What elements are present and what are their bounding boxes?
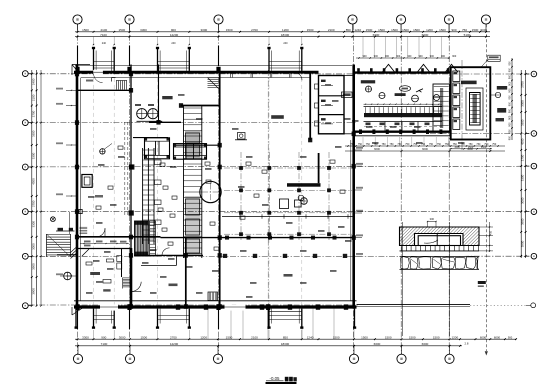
svg-text:1500: 1500 xyxy=(402,28,409,32)
room label upper-left xyxy=(162,96,172,99)
wall x186 lower xyxy=(185,238,187,308)
svg-text:1500: 1500 xyxy=(226,335,233,339)
horizontal axis line wing-bottom xyxy=(430,133,529,135)
detail axis verticals xyxy=(402,222,404,336)
room label lower-left xyxy=(103,289,110,291)
svg-text:1500: 1500 xyxy=(361,335,368,339)
svg-text:3300: 3300 xyxy=(31,130,35,137)
svg-text:18300: 18300 xyxy=(281,33,290,37)
right bubble stems xyxy=(526,73,530,75)
svg-text:6600: 6600 xyxy=(374,342,381,346)
annex bold label xyxy=(461,81,477,85)
exterior corner hatch left xyxy=(71,247,77,253)
room number label xyxy=(95,195,103,198)
bottom dimension ticks xyxy=(77,338,79,340)
top band stems xyxy=(93,37,95,45)
left exterior wall xyxy=(76,65,79,309)
svg-text:900: 900 xyxy=(101,335,106,339)
porch threshold xyxy=(269,311,302,313)
pump leader marks xyxy=(135,104,141,106)
svg-text:300: 300 xyxy=(430,217,435,221)
svg-text:900: 900 xyxy=(374,55,379,58)
top dimension ticks xyxy=(77,31,79,33)
svg-text:1500: 1500 xyxy=(439,28,446,32)
svg-text:3900: 3900 xyxy=(31,288,35,295)
svg-text:900: 900 xyxy=(509,115,512,120)
cell stack door stubs xyxy=(315,84,319,89)
interior wall x131 xyxy=(130,65,132,309)
annex outer walls xyxy=(451,67,491,139)
svg-text:900: 900 xyxy=(480,28,485,32)
svg-text:3300: 3300 xyxy=(140,28,147,32)
detail masonry course xyxy=(400,245,480,247)
exterior platform xyxy=(56,230,75,232)
gallery B rails xyxy=(183,106,185,258)
detail leader xyxy=(424,240,438,243)
porch wall xyxy=(57,254,77,256)
dashed duct pair xyxy=(124,122,126,215)
wing roof triangles xyxy=(382,64,395,72)
wing conveyor top rail xyxy=(364,106,443,108)
interior thick wall x310 xyxy=(309,72,311,140)
right dimension line 1 xyxy=(520,70,522,258)
svg-text:1240: 1240 xyxy=(354,28,361,32)
wall junction blobs xyxy=(129,235,133,240)
small cells boxes right of hall xyxy=(117,256,122,262)
interior wall y105 xyxy=(181,105,220,107)
right keynote extra xyxy=(496,118,505,121)
gallery B inner boxes xyxy=(186,133,200,143)
svg-text:2700: 2700 xyxy=(31,200,35,207)
B axis column marks xyxy=(223,254,227,258)
svg-text:3900: 3900 xyxy=(31,263,35,270)
wing level oval xyxy=(399,86,410,92)
annex keynote labels xyxy=(497,86,507,90)
top-left corner brace xyxy=(72,65,78,72)
horizontal axis line E xyxy=(29,122,356,124)
horizontal axis line D xyxy=(29,165,530,168)
svg-text:750: 750 xyxy=(462,28,467,32)
svg-text:900: 900 xyxy=(171,28,176,32)
svg-text:4500: 4500 xyxy=(31,178,35,185)
interior wall y122 xyxy=(149,121,181,123)
stair near wall y90 xyxy=(116,81,118,90)
svg-text:750: 750 xyxy=(453,143,458,146)
title bold name xyxy=(285,377,289,382)
svg-text:3900: 3900 xyxy=(521,218,525,225)
svg-text:240: 240 xyxy=(102,42,107,45)
bottom wall extension to right xyxy=(357,303,471,305)
vertical axis line 5 xyxy=(400,24,402,354)
wing bottom wall blobs xyxy=(359,129,362,134)
wing conveyor bottom rail xyxy=(364,121,443,123)
svg-text:900: 900 xyxy=(441,55,446,58)
partition x121 lower xyxy=(121,249,123,277)
room labels lower middle xyxy=(169,284,178,287)
svg-text:3000: 3000 xyxy=(201,28,208,32)
svg-text:3300: 3300 xyxy=(82,335,89,339)
bottom wall pier blobs xyxy=(176,304,180,309)
svg-text:900: 900 xyxy=(509,102,512,107)
wing conveyor dark bar xyxy=(364,113,442,117)
svg-text:900: 900 xyxy=(509,81,512,86)
top wall door gap xyxy=(93,70,103,75)
wing pump circle 2 xyxy=(379,93,385,99)
bottom axis bubbles xyxy=(73,354,82,363)
wing interior posts xyxy=(384,122,386,132)
svg-text:240: 240 xyxy=(171,42,176,45)
svg-text:750: 750 xyxy=(390,143,395,146)
door arc top wall xyxy=(294,72,302,80)
svg-text:900: 900 xyxy=(452,55,457,58)
bottom pilaster columns xyxy=(93,309,95,327)
svg-text:1500: 1500 xyxy=(226,28,233,32)
svg-text:900: 900 xyxy=(430,55,435,58)
wall y237 column marks xyxy=(225,236,229,240)
svg-text:750: 750 xyxy=(476,143,481,146)
vertical axis line 4 xyxy=(352,24,354,354)
small equipment near axis3 xyxy=(238,133,246,140)
exterior stair treads xyxy=(47,234,71,236)
cell stack ties to right wall xyxy=(344,75,354,77)
duct junction box 1 xyxy=(129,164,134,169)
interior wall y145 xyxy=(176,144,220,146)
wall label box right xyxy=(342,92,353,98)
svg-text:1500: 1500 xyxy=(366,28,373,32)
left dimension line 1 xyxy=(31,70,33,305)
gallery A side boxes xyxy=(155,160,162,165)
interior wall x158 xyxy=(158,65,160,123)
svg-text:3300: 3300 xyxy=(31,152,35,159)
L-shaped foundation wall xyxy=(287,183,321,187)
svg-text:7100: 7100 xyxy=(100,33,107,37)
svg-text:1500: 1500 xyxy=(409,335,416,339)
tank box xyxy=(82,175,92,188)
bottom bubble stems xyxy=(77,346,79,354)
gallery A rails xyxy=(142,148,144,244)
bottom wall door gaps xyxy=(100,304,118,310)
detail inner step xyxy=(418,236,460,246)
corridor wall y248 xyxy=(77,248,131,250)
gallery B dark segments xyxy=(185,131,201,158)
svg-text:3300: 3300 xyxy=(31,221,35,228)
vertical axis line 6 xyxy=(448,24,450,354)
lower stair flight xyxy=(123,277,131,279)
annotation smudges xyxy=(84,241,91,243)
svg-text:850: 850 xyxy=(346,28,351,32)
wing pump circle 4 xyxy=(434,95,440,101)
annex bottom dim row xyxy=(450,148,492,150)
svg-text:900: 900 xyxy=(509,88,512,93)
svg-text:900: 900 xyxy=(509,95,512,100)
detail right dims xyxy=(489,222,491,252)
bottom dimension line 1 xyxy=(75,338,462,340)
svg-text:2.8: 2.8 xyxy=(465,341,469,345)
right axis bubbles xyxy=(531,71,537,77)
svg-text:3900: 3900 xyxy=(521,240,525,247)
top pilaster columns xyxy=(93,48,95,71)
top exterior wall xyxy=(74,71,319,74)
bottom axis column stubs xyxy=(75,304,79,310)
vertical axis line 1 xyxy=(77,24,79,354)
top dimension line 2 xyxy=(75,36,490,38)
detail rubble stones xyxy=(400,255,480,257)
svg-text:900: 900 xyxy=(396,55,401,58)
corridor dim ticks xyxy=(80,243,129,245)
svg-text:12200: 12200 xyxy=(170,33,179,37)
interior wall y90 xyxy=(77,89,131,91)
wing bold label xyxy=(395,93,406,96)
circled-x utility symbol xyxy=(51,217,56,222)
interior wall y237 xyxy=(79,236,161,238)
annex top leader labels xyxy=(481,60,488,68)
svg-text:750: 750 xyxy=(437,143,442,146)
top wall inner face xyxy=(81,77,310,79)
gallery B rungs xyxy=(184,107,202,109)
svg-text:750: 750 xyxy=(350,143,355,146)
wing top wall column blobs xyxy=(357,68,360,73)
svg-text:2700: 2700 xyxy=(521,81,525,88)
svg-text:3000: 3000 xyxy=(119,335,126,339)
svg-text:1500: 1500 xyxy=(378,28,385,32)
wing lower dimension row xyxy=(345,145,505,147)
bottom left corner column xyxy=(75,309,77,327)
svg-text:1240: 1240 xyxy=(307,335,314,339)
top eave line xyxy=(75,65,352,67)
right wall exterior dim stubs xyxy=(354,149,362,151)
svg-text:6600: 6600 xyxy=(374,147,380,151)
detail label below xyxy=(478,281,486,284)
wing conveyor small dim ticks xyxy=(364,103,443,105)
interior wall y265 xyxy=(141,264,177,266)
svg-text:900: 900 xyxy=(419,55,424,58)
wing conveyor vertical ticks xyxy=(365,107,367,113)
svg-text:750: 750 xyxy=(492,143,497,146)
top wall window ticks xyxy=(230,74,232,78)
svg-text:750: 750 xyxy=(445,143,450,146)
left dimension line 2 xyxy=(36,70,38,305)
svg-text:900: 900 xyxy=(509,122,512,127)
top axis column stubs xyxy=(77,46,79,67)
svg-text:-0.05: -0.05 xyxy=(269,376,280,381)
end leader circle xyxy=(531,303,536,308)
horizontal axis line B xyxy=(29,255,530,257)
wall junction open box C xyxy=(79,210,82,214)
svg-text:750: 750 xyxy=(484,143,489,146)
top dimension line 1 xyxy=(75,31,490,33)
svg-text:2700: 2700 xyxy=(251,28,258,32)
corridor door leaf xyxy=(82,249,89,256)
interior axis line x268 xyxy=(267,70,269,307)
svg-text:1200: 1200 xyxy=(426,28,433,32)
svg-text:5100: 5100 xyxy=(464,33,471,37)
svg-text:1500: 1500 xyxy=(307,28,314,32)
svg-text:2700: 2700 xyxy=(31,110,35,117)
central area small rects xyxy=(160,163,165,166)
right dense dimension column xyxy=(511,58,513,140)
svg-text:1200: 1200 xyxy=(200,335,207,339)
svg-text:1200: 1200 xyxy=(282,28,289,32)
svg-text:900: 900 xyxy=(451,28,456,32)
svg-text:1500: 1500 xyxy=(140,335,147,339)
svg-text:6000: 6000 xyxy=(480,335,487,339)
svg-text:750: 750 xyxy=(405,143,410,146)
svg-text:6600: 6600 xyxy=(422,33,429,37)
svg-text:750: 750 xyxy=(358,143,363,146)
interior wall y254 xyxy=(134,254,203,256)
svg-text:1500: 1500 xyxy=(433,335,440,339)
svg-text:450: 450 xyxy=(490,230,493,235)
door swing arc xyxy=(131,282,141,292)
equipment boxes near C axis xyxy=(280,199,289,209)
svg-text:3300: 3300 xyxy=(521,119,525,126)
horizontal axis line C xyxy=(29,211,530,213)
svg-text:750: 750 xyxy=(382,143,387,146)
svg-text:2100: 2100 xyxy=(100,28,107,32)
svg-text:1500: 1500 xyxy=(82,28,89,32)
annex inner cells xyxy=(453,71,460,81)
wing flow arrow symbol xyxy=(416,89,423,92)
equipment grid column squares xyxy=(239,166,243,170)
svg-text:6600: 6600 xyxy=(422,147,428,151)
bottom dim extension right xyxy=(462,338,516,340)
vertical axis line 3 xyxy=(218,24,220,354)
svg-text:3000: 3000 xyxy=(31,243,35,250)
room label big room xyxy=(271,115,284,119)
staircase second hatch strip xyxy=(150,221,156,256)
detail top dim 300 xyxy=(428,221,437,223)
foundation circle xyxy=(301,198,308,205)
wing bottom wall xyxy=(354,130,451,132)
top axis bubbles xyxy=(73,15,82,24)
door arc room1 xyxy=(97,228,106,237)
bottom exterior wall xyxy=(74,305,357,308)
svg-text:1500: 1500 xyxy=(413,28,420,32)
cell stack dividers xyxy=(319,95,345,97)
svg-text:3000: 3000 xyxy=(521,197,525,204)
wing top wall xyxy=(354,71,451,73)
pump base line xyxy=(137,120,163,122)
left rooms small boxes xyxy=(107,259,114,262)
left axis bubbles xyxy=(22,71,28,77)
left wall exterior dim stubs xyxy=(66,89,77,91)
manhole symbol xyxy=(64,272,72,280)
title underline bar xyxy=(266,382,297,384)
door arc room2 xyxy=(162,248,170,256)
right dimension ticks xyxy=(520,73,522,75)
vertical axis line 2 xyxy=(129,24,131,354)
foundation I-beam 1 xyxy=(145,138,170,159)
svg-text:240: 240 xyxy=(283,42,288,45)
interior column axes (light) xyxy=(93,71,95,305)
svg-text:2100: 2100 xyxy=(251,335,258,339)
svg-text:900: 900 xyxy=(509,136,512,141)
interior wall y137 xyxy=(133,137,168,139)
svg-text:900: 900 xyxy=(509,129,512,134)
svg-text:850: 850 xyxy=(283,335,288,339)
svg-text:900: 900 xyxy=(509,61,512,66)
wing dim extension lines xyxy=(362,137,364,146)
top band small dim ticks xyxy=(93,44,94,45)
svg-text:6600: 6600 xyxy=(422,342,429,346)
svg-text:900: 900 xyxy=(508,335,513,339)
detail notch divider xyxy=(436,234,438,246)
interior wall y237 right part xyxy=(161,237,354,239)
svg-text:1500: 1500 xyxy=(391,28,398,32)
upper room marks xyxy=(86,80,93,82)
stair treads at x207-218 xyxy=(208,77,219,79)
large flue circle xyxy=(200,181,221,202)
svg-text:900: 900 xyxy=(407,55,412,58)
svg-text:1500: 1500 xyxy=(454,146,460,149)
target symbol xyxy=(100,149,105,154)
wing lift hatched box xyxy=(433,84,450,131)
wing equipment label xyxy=(361,80,375,83)
left wall inner face xyxy=(79,78,81,301)
upper-left stair treads xyxy=(80,226,88,228)
bottom right corner column xyxy=(354,309,356,327)
svg-text:3300: 3300 xyxy=(521,100,525,107)
gallery A rungs xyxy=(143,149,154,151)
svg-text:4500: 4500 xyxy=(521,138,525,145)
pump circle P2 xyxy=(148,109,158,119)
svg-text:900: 900 xyxy=(509,68,512,73)
duct junction box 2 xyxy=(129,210,134,215)
wing top dim row xyxy=(356,57,450,59)
wing pump circle 1 xyxy=(366,86,372,92)
pump circle P1 xyxy=(137,109,147,119)
svg-text:900: 900 xyxy=(509,74,512,79)
svg-text:2700: 2700 xyxy=(521,154,525,161)
right exterior wall of main block xyxy=(352,65,355,309)
svg-text:6600: 6600 xyxy=(373,33,380,37)
svg-text:2700: 2700 xyxy=(170,335,177,339)
svg-text:750: 750 xyxy=(429,143,434,146)
vertical axis line 7 (dashed) xyxy=(485,24,487,351)
equipment grid horizontals xyxy=(224,167,352,169)
left dimension ticks xyxy=(31,73,33,75)
svg-text:3300: 3300 xyxy=(521,174,525,181)
svg-text:2100: 2100 xyxy=(328,28,335,32)
right wall inner face xyxy=(350,140,352,301)
equipment grid verticals xyxy=(240,152,242,240)
cell stack inner marks xyxy=(321,80,326,82)
svg-text:750: 750 xyxy=(469,143,474,146)
svg-text:1500: 1500 xyxy=(118,28,125,32)
cell stack outer box xyxy=(319,76,345,134)
small stair at bottom wall xyxy=(208,292,218,301)
annex elevator shaft xyxy=(466,88,483,130)
svg-text:1500: 1500 xyxy=(472,28,479,32)
room label hall xyxy=(90,272,100,275)
horizontal axis line F xyxy=(29,73,530,75)
interior wall x219 xyxy=(219,71,221,308)
wing pump circle 3 xyxy=(412,95,419,102)
bottom dimension line 2 xyxy=(75,345,462,347)
bottom wall inner line xyxy=(74,300,357,302)
conveyor under blobs xyxy=(366,123,371,126)
right dimension line 2 xyxy=(525,70,527,258)
svg-text:900: 900 xyxy=(385,55,390,58)
foundation I-beam 2 xyxy=(174,144,207,160)
svg-text:18300: 18300 xyxy=(281,342,290,346)
svg-text:1500: 1500 xyxy=(385,335,392,339)
svg-text:1200: 1200 xyxy=(451,335,458,339)
svg-text:7100: 7100 xyxy=(101,342,108,346)
svg-text:4500: 4500 xyxy=(467,147,473,151)
left bubble stems xyxy=(29,73,32,75)
annex internal axis xyxy=(461,60,463,150)
